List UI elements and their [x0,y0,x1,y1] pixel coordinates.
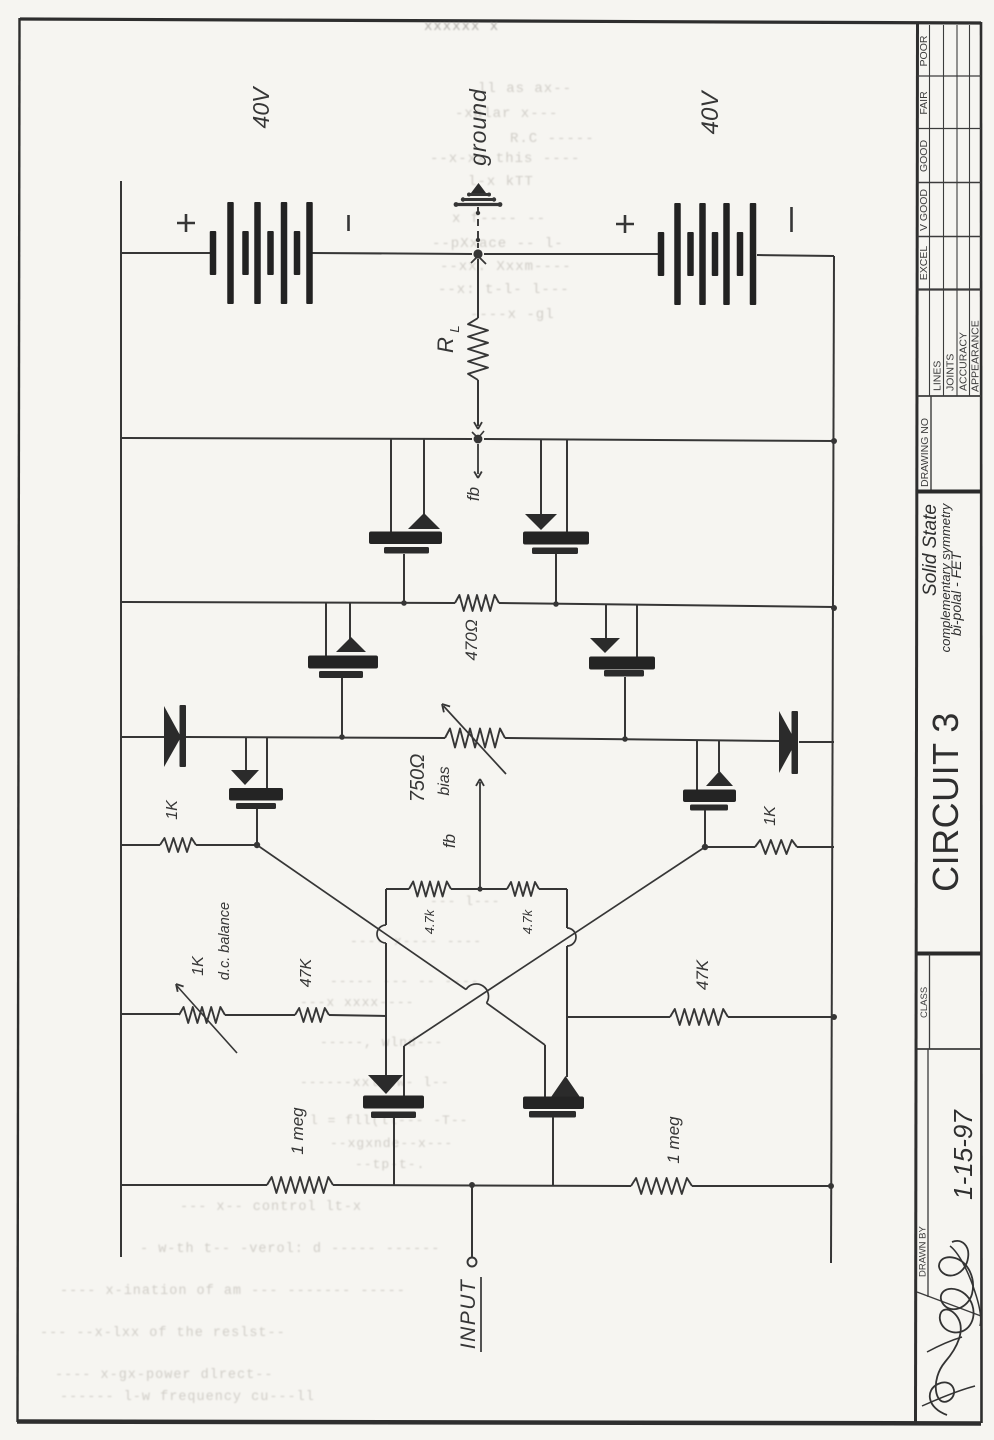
svg-text:1 meg: 1 meg [288,1107,307,1155]
svg-text:--xx. Xxxm----: --xx. Xxxm---- [440,259,572,275]
svg-text:--- x-- control lt-x: --- x-- control lt-x [180,1200,362,1215]
svg-text:--- l---: --- l--- [430,894,500,909]
svg-text:--tp-t-.: --tp-t-. [355,1157,425,1172]
svg-text:--- --x-lxx of the reslst--: --- --x-lxx of the reslst-- [40,1326,286,1341]
svg-text:---x xxxx----: ---x xxxx---- [300,995,414,1010]
svg-text:CIRCUIT 3: CIRCUIT 3 [925,712,966,892]
svg-text:fb: fb [464,487,483,501]
svg-text:R.C -----: R.C ----- [510,131,595,147]
svg-text:POOR: POOR [918,35,930,66]
svg-text:ACCURACY: ACCURACY [958,332,970,391]
svg-text:FAIR: FAIR [918,91,930,115]
svg-text:------ l-w frequency cu---ll: ------ l-w frequency cu---ll [60,1390,315,1405]
svg-text:DRAWING NO: DRAWING NO [919,418,931,487]
svg-text:-----, wlnd---: -----, wlnd--- [320,1035,443,1050]
svg-text:d.c. balance: d.c. balance [217,902,233,980]
svg-text:fb: fb [440,834,459,848]
svg-text:---- x-ination of am --- -: ---- x-ination of am --- ------- ----- [60,1284,406,1299]
svg-text:LINES: LINES [932,361,944,391]
svg-text:ll as ax--: ll as ax-- [478,81,572,97]
svg-text:---- x---- ----: ---- x---- ---- [350,934,482,949]
svg-text:470Ω: 470Ω [462,619,481,660]
svg-text:EXCEL: EXCEL [918,246,930,281]
svg-text:--x-xx this ----: --x-xx this ---- [430,151,580,167]
svg-text:1K: 1K [164,799,181,820]
svg-text:40V: 40V [248,85,274,129]
svg-text:APPEARANCE: APPEARANCE [970,320,982,392]
svg-text:1 meg: 1 meg [664,1116,683,1164]
svg-text:bi-polal - FET: bi-polal - FET [948,551,964,636]
svg-text:V GOOD: V GOOD [918,189,930,231]
svg-text:--xgxnde--x---: --xgxnde--x--- [330,1136,453,1151]
svg-text:1K: 1K [762,805,779,826]
svg-text:----x -gl: ----x -gl [470,307,555,323]
svg-text:4.7k: 4.7k [422,908,437,934]
svg-text:--x: t-l- l---: --x: t-l- l--- [438,282,570,298]
svg-text:4.7k: 4.7k [520,908,535,934]
svg-text:47K: 47K [693,959,712,990]
svg-text:GOOD: GOOD [918,140,930,173]
svg-text:R: R [433,337,458,353]
svg-text:750Ω: 750Ω [407,754,429,803]
svg-text:----- --- -- ----: ----- --- -- ---- [330,974,480,989]
svg-text:- w-th t-- -verol: d ----: - w-th t-- -verol: d ----- ------ [140,1242,440,1257]
svg-text:JOINTS: JOINTS [945,354,957,391]
svg-text:ground: ground [465,88,491,166]
svg-text:DRAWN BY: DRAWN BY [918,1225,929,1277]
svg-text:bias: bias [436,766,453,795]
svg-text:1K: 1K [190,955,207,976]
svg-text:40V: 40V [697,90,724,135]
svg-text:--pXxace -- l-: --pXxace -- l- [432,236,564,252]
svg-text:xxxxxx x: xxxxxx x [424,19,499,35]
svg-text:47K: 47K [298,957,315,987]
svg-text:---- x-gx-power dlrect--: ---- x-gx-power dlrect-- [55,1368,273,1383]
svg-text:x f---- --: x f---- -- [452,211,546,227]
svg-text:L: L [447,325,462,332]
svg-text:INPUT: INPUT [457,1278,480,1349]
svg-text:1-15-97: 1-15-97 [948,1109,978,1200]
svg-text:CLASS: CLASS [919,987,930,1018]
